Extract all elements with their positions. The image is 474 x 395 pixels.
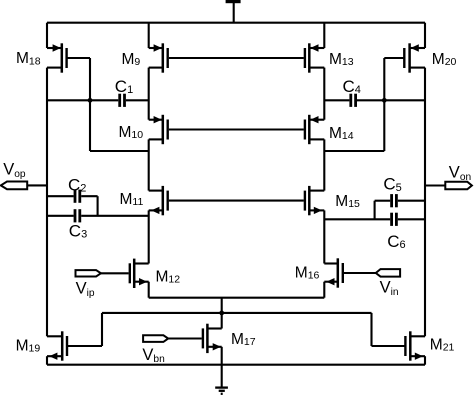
transistor M18 — [47, 43, 90, 72]
label C1 — [115, 77, 133, 96]
svg-text:M13: M13 — [329, 51, 354, 68]
svg-text:M16: M16 — [295, 264, 320, 281]
wire M11 source to M12 drain — [148, 210, 150, 263]
wire tail node bus — [149, 297, 325, 299]
wire M17 drain riser — [221, 298, 223, 329]
capacitor C6 — [324, 213, 425, 226]
transistor M10 — [149, 115, 168, 144]
capacitor C3 — [47, 209, 149, 222]
wire M18 drain down left branch — [46, 68, 48, 337]
svg-text:Vbn: Vbn — [142, 346, 164, 365]
label M18 — [16, 50, 41, 67]
wire M21 source to bottom rail — [424, 356, 426, 365]
svg-text:C4: C4 — [343, 77, 361, 96]
wire M20 drain down right branch — [424, 68, 426, 337]
wire Vin to M16 gate — [344, 272, 376, 274]
wire M20 gate drop — [383, 58, 385, 151]
svg-text:M15: M15 — [335, 193, 360, 210]
svg-text:M14: M14 — [329, 125, 354, 142]
label M19 — [16, 337, 41, 354]
transistor M9 — [149, 43, 168, 72]
label M12 — [156, 268, 181, 285]
wire Vip to M12 gate — [101, 272, 129, 274]
wire M19 source to bottom rail — [46, 356, 48, 365]
wire left rail to M18 source — [46, 23, 48, 48]
wire Von to right branch — [425, 184, 445, 186]
transistor M11 — [149, 186, 168, 215]
wire M18 gate drop — [89, 58, 91, 151]
node bias bus junction dot — [219, 311, 224, 316]
label C5 — [383, 175, 401, 194]
port Vop output tag — [1, 182, 27, 190]
wire C5 to C6 joiner — [374, 201, 376, 220]
node M18 gate / C1 junction dot — [88, 98, 93, 103]
label Vop — [3, 161, 26, 180]
capacitor C1 — [47, 94, 149, 107]
wire M17 source to ground — [221, 347, 223, 388]
transistor M16 — [324, 258, 343, 287]
wire bottom rail — [47, 364, 425, 366]
transistor M12 — [130, 259, 149, 288]
wire M21 gate riser — [370, 313, 372, 346]
wire M14 drain to M15 drain — [323, 139, 325, 190]
wire node to M14 drain — [324, 150, 384, 152]
label M16 — [295, 264, 320, 281]
label M10 — [119, 124, 144, 141]
VDD supply symbol — [226, 0, 241, 23]
wire C2 to C3 joiner — [97, 196, 99, 216]
transistor M21 — [372, 331, 426, 360]
port Vip input tag — [76, 270, 101, 276]
wire M9-M13 gate rail — [169, 57, 304, 59]
svg-text:C6: C6 — [387, 232, 405, 251]
svg-text:M9: M9 — [122, 51, 141, 68]
transistor M15 — [305, 186, 324, 215]
wire node to M10 drain — [90, 150, 149, 152]
label M15 — [335, 193, 360, 210]
svg-text:M18: M18 — [16, 50, 41, 67]
label C3 — [69, 221, 87, 240]
transistor M14 — [305, 115, 324, 144]
node M20 gate / C4 junction dot — [382, 98, 387, 103]
wire M9 drain to M10 source — [148, 68, 150, 120]
capacitor C5 — [375, 194, 425, 207]
port Vin input tag — [376, 269, 400, 277]
wire M11-M15 gate rail — [169, 200, 304, 202]
transistor M17 — [203, 324, 222, 353]
transistor M13 — [305, 43, 324, 72]
capacitor C2 — [47, 190, 98, 203]
wire M10-M14 gate rail — [169, 128, 304, 130]
wire rail to M9 source — [148, 23, 150, 48]
label Vbn — [142, 346, 164, 365]
label C2 — [68, 175, 86, 194]
label M17 — [231, 331, 256, 348]
label M14 — [329, 125, 354, 142]
svg-text:C1: C1 — [115, 77, 133, 96]
label Von — [449, 164, 471, 183]
wire right rail to M20 source — [424, 23, 426, 48]
wire top VDD rail — [47, 22, 425, 24]
svg-text:M10: M10 — [119, 124, 144, 141]
wire Vop to left branch — [27, 184, 47, 186]
svg-text:M11: M11 — [120, 191, 144, 208]
label Vin — [380, 279, 399, 298]
label M21 — [430, 336, 455, 353]
capacitor C4 — [324, 94, 384, 107]
svg-text:Von: Von — [449, 164, 471, 183]
svg-text:M21: M21 — [430, 336, 455, 353]
svg-text:Vip: Vip — [76, 280, 95, 299]
svg-text:M20: M20 — [432, 51, 457, 68]
label Vip — [76, 280, 95, 299]
port Vbn input tag — [143, 335, 168, 342]
svg-text:C3: C3 — [69, 221, 87, 240]
wire M16 source down — [323, 282, 325, 298]
wire C4 junction to M20 drain — [384, 99, 425, 101]
ground symbol — [215, 388, 228, 394]
wire M13 drain to M14 source — [323, 68, 325, 120]
svg-text:Vin: Vin — [380, 279, 399, 298]
transistor M19 — [47, 331, 102, 360]
svg-text:M17: M17 — [231, 331, 256, 348]
wire M12 source down — [148, 282, 150, 298]
label M9 — [122, 51, 141, 68]
svg-text:C2: C2 — [68, 175, 86, 194]
svg-text:Vop: Vop — [3, 161, 26, 180]
wire rail to M13 source — [323, 23, 325, 48]
label M13 — [329, 51, 354, 68]
wire gate bias bus — [102, 312, 372, 314]
svg-text:M12: M12 — [156, 268, 181, 285]
wire M10 drain to M11 drain — [148, 139, 150, 190]
label M20 — [432, 51, 457, 68]
wire M15 source to M16 drain — [323, 210, 325, 263]
transistor M20 — [384, 43, 425, 72]
wire Vbn to M17 gate — [168, 337, 202, 339]
label C4 — [343, 77, 361, 96]
label M11 — [120, 191, 144, 208]
wire M19 gate riser — [101, 313, 103, 346]
svg-text:C5: C5 — [383, 175, 401, 194]
label C6 — [387, 232, 405, 251]
svg-text:M19: M19 — [16, 337, 41, 354]
port Von output tag — [445, 182, 472, 190]
